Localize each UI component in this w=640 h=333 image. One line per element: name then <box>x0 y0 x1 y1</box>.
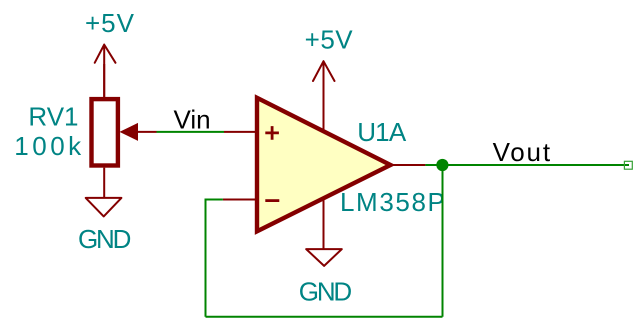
svg-text:100k: 100k <box>14 131 84 161</box>
wire feedback (bottom run) <box>206 316 443 318</box>
svg-text:Vin: Vin <box>174 104 211 134</box>
wire Vin (pot wiper to op-amp +) <box>157 131 225 133</box>
wire feedback (op-amp - input, down) <box>206 200 223 317</box>
ground (left) <box>78 198 131 254</box>
svg-text:GND: GND <box>299 277 352 307</box>
op-amp U1A <box>223 61 426 249</box>
potentiometer RV1 <box>92 64 257 198</box>
power +5V (left) <box>85 8 135 97</box>
unconnected end marker <box>624 161 632 169</box>
svg-text:LM358P: LM358P <box>340 187 446 217</box>
svg-text:+5V: +5V <box>305 25 354 55</box>
svg-text:+5V: +5V <box>85 8 135 38</box>
svg-text:U1A: U1A <box>357 117 407 147</box>
svg-text:Vout: Vout <box>493 137 552 167</box>
wire Vout (output) <box>425 164 629 166</box>
junction (output node) <box>436 159 448 171</box>
svg-text:RV1: RV1 <box>28 101 78 131</box>
ground (op-amp) <box>299 249 352 306</box>
svg-text:GND: GND <box>78 224 131 254</box>
wire feedback (up to output) <box>442 165 444 317</box>
